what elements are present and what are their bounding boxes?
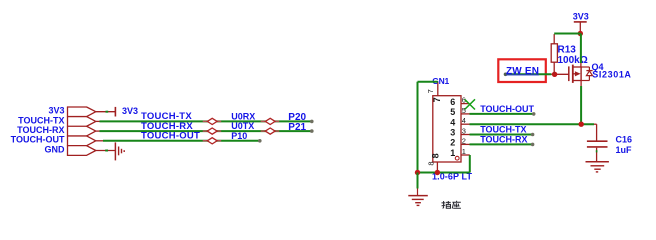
svg-text:8: 8	[426, 161, 435, 165]
pin 2 stub	[461, 143, 470, 145]
ground symbol left (rotated)	[115, 142, 124, 160]
wire ZW_EN	[506, 73, 552, 75]
wire 3V3 horizontal	[554, 33, 580, 35]
pin 4 stub	[461, 123, 470, 125]
wire Q4 drain down	[580, 81, 582, 87]
comment 插座	[442, 201, 461, 209]
pin 3 stub	[461, 134, 470, 136]
svg-text:TOUCH-OUT: TOUCH-OUT	[141, 131, 200, 142]
wire TOUCH-OUT (pin5)	[470, 113, 534, 115]
svg-text:8: 8	[430, 153, 440, 158]
no-erc diamond RX-2	[261, 128, 280, 134]
svg-text:TOUCH-OUT: TOUCH-OUT	[11, 135, 65, 145]
svg-text:7: 7	[426, 89, 435, 93]
svg-text:100kΩ: 100kΩ	[558, 55, 588, 66]
wire end dot TX	[310, 120, 314, 124]
junction dot drain/C16	[579, 122, 584, 127]
svg-text:P10: P10	[231, 131, 247, 141]
svg-text:2: 2	[450, 138, 455, 148]
pin 7 stub (top)	[437, 82, 439, 95]
sheet entry port stack	[68, 107, 96, 155]
port ZW_EN box	[498, 59, 546, 82]
no-erc diamond OUT-1	[203, 138, 222, 144]
svg-text:P21: P21	[288, 122, 306, 133]
Q4 source arrow	[575, 71, 581, 76]
pin 1 stub	[461, 154, 470, 156]
wire TOUCH-RX row	[96, 130, 100, 132]
ground symbol connector	[408, 196, 428, 206]
svg-text:TOUCH-TX: TOUCH-TX	[18, 115, 64, 125]
junction dot rail left	[415, 170, 420, 175]
wire left loop vertical	[417, 82, 419, 173]
svg-text:3V3: 3V3	[573, 12, 589, 22]
wire TOUCH-TX (pin3)	[470, 134, 533, 136]
svg-text:5: 5	[450, 107, 455, 117]
wire end dot RX	[310, 129, 314, 133]
svg-text:1: 1	[462, 147, 466, 156]
wire TOUCH-RX (pin2)	[470, 143, 533, 145]
svg-text:SI2301A: SI2301A	[592, 70, 631, 80]
svg-text:U0RX: U0RX	[231, 111, 255, 121]
no-erc diamond RX-1	[203, 128, 222, 134]
wire TOUCH-OUT row	[96, 140, 104, 142]
svg-text:5: 5	[462, 106, 466, 115]
no-connect X pin 6	[465, 99, 475, 109]
pin 8 stub (bottom)	[436, 162, 438, 173]
wire end dot TOUCH-OUT	[532, 112, 536, 116]
junction dot pin8	[435, 170, 440, 175]
svg-text:4: 4	[462, 116, 466, 125]
ground symbol C16	[586, 162, 609, 172]
svg-text:1: 1	[450, 148, 455, 158]
Q4 middle stub	[573, 73, 576, 75]
svg-text:R13: R13	[558, 45, 577, 56]
wire end dot OUT	[258, 139, 262, 143]
wire green tick 3V3 row	[106, 111, 109, 113]
svg-text:6: 6	[450, 97, 455, 107]
pin 6 stub	[461, 103, 470, 105]
svg-text:2: 2	[462, 136, 466, 145]
pin 1 clock bubble	[455, 156, 459, 160]
transistor Q4 SI2301A	[569, 63, 593, 83]
svg-text:TOUCH-TX: TOUCH-TX	[480, 125, 526, 135]
power 3V3 top	[574, 22, 587, 33]
resistor R13	[551, 34, 557, 74]
wire bottom rail	[418, 172, 470, 174]
svg-text:3V3: 3V3	[48, 106, 64, 116]
svg-text:4: 4	[450, 117, 455, 127]
svg-text:3: 3	[462, 127, 466, 136]
pin 5 stub	[461, 113, 470, 115]
ground pin	[417, 189, 419, 196]
svg-text:TOUCH-RX: TOUCH-RX	[17, 125, 64, 135]
svg-text:TOUCH-RX: TOUCH-RX	[480, 135, 527, 145]
svg-text:C16: C16	[616, 135, 633, 145]
wire TOUCH-TX row	[96, 120, 100, 122]
wire end dot ZW_EN	[504, 73, 508, 77]
svg-text:TOUCH-OUT: TOUCH-OUT	[480, 104, 534, 114]
wire pin7 top	[418, 81, 438, 83]
svg-text:U0TX: U0TX	[231, 121, 254, 131]
svg-text:3: 3	[450, 128, 455, 138]
wire green tick GND row	[105, 150, 108, 152]
wire 3V3 down to Q4	[580, 34, 582, 64]
no-erc diamond TX-2	[261, 118, 280, 124]
no-erc diamond TX-1	[203, 118, 222, 124]
svg-text:ZW EN: ZW EN	[506, 66, 539, 77]
capacitor C16	[587, 124, 608, 162]
wire ground drop	[417, 173, 419, 189]
power bar 3V3 left	[114, 107, 116, 117]
wire pin4 to Q4 drain / C16	[470, 123, 595, 125]
wire 3V3 row	[96, 111, 116, 113]
svg-text:3V3: 3V3	[122, 106, 138, 116]
svg-text:1uF: 1uF	[616, 145, 633, 155]
wire pin1 down	[469, 155, 471, 173]
junction dot 3V3	[578, 31, 583, 36]
connector GN1 body	[433, 96, 461, 162]
wire end dot TOUCH-TX	[531, 133, 535, 137]
wire gate segment	[551, 73, 568, 75]
junction dot gate/R13	[552, 72, 557, 77]
svg-text:GND: GND	[45, 144, 66, 154]
svg-text:7: 7	[432, 97, 442, 102]
wire end dot TOUCH-RX	[531, 143, 535, 147]
wire GND row	[96, 150, 116, 152]
